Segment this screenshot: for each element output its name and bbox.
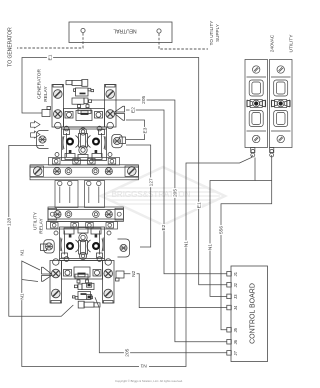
svg-text:N1: N1 <box>208 244 214 250</box>
svg-text:UTILITY: UTILITY <box>289 34 295 53</box>
svg-text:TO UTILITY: TO UTILITY <box>209 21 214 46</box>
svg-text:N1: N1 <box>140 363 146 369</box>
svg-text:205: 205 <box>173 189 179 197</box>
svg-text:E1: E1 <box>48 54 54 60</box>
svg-text:128: 128 <box>6 218 12 226</box>
svg-text:NEUTRAL: NEUTRAL <box>113 27 137 33</box>
svg-text:TO GENERATOR: TO GENERATOR <box>8 27 14 67</box>
svg-text:240VAC: 240VAC <box>270 34 276 52</box>
svg-text:RELAY: RELAY <box>43 86 49 102</box>
svg-text:J6: J6 <box>233 339 238 344</box>
svg-text:E1: E1 <box>196 202 202 208</box>
svg-text:205: 205 <box>141 95 147 103</box>
svg-text:N2: N2 <box>131 270 137 276</box>
svg-text:J7: J7 <box>233 350 238 355</box>
svg-text:CONTROL BOARD: CONTROL BOARD <box>249 283 256 344</box>
svg-text:J2: J2 <box>233 282 238 287</box>
svg-text:N1: N1 <box>20 293 26 299</box>
svg-text:J5: J5 <box>233 327 238 332</box>
svg-text:N1: N1 <box>19 249 25 255</box>
svg-text:N1: N1 <box>184 241 190 247</box>
svg-text:E2: E2 <box>130 107 136 113</box>
svg-text:BRIGGS&STRATTON: BRIGGS&STRATTON <box>112 190 191 199</box>
svg-text:J4: J4 <box>233 305 238 310</box>
svg-text:E3: E3 <box>142 127 148 133</box>
svg-text:GENERATOR: GENERATOR <box>37 69 43 99</box>
svg-text:J3: J3 <box>233 294 238 299</box>
svg-text:J1: J1 <box>233 271 238 276</box>
svg-text:E2: E2 <box>161 224 167 230</box>
svg-text:UTILITY: UTILITY <box>33 211 39 230</box>
svg-text:Copyright © Briggs & Stratton,: Copyright © Briggs & Stratton, LLC. All … <box>115 379 183 383</box>
svg-text:RELAY: RELAY <box>39 218 45 234</box>
svg-text:127: 127 <box>148 178 154 186</box>
svg-text:205: 205 <box>125 348 131 356</box>
svg-text:SUPPLY: SUPPLY <box>215 24 220 42</box>
svg-text:556: 556 <box>219 226 225 234</box>
